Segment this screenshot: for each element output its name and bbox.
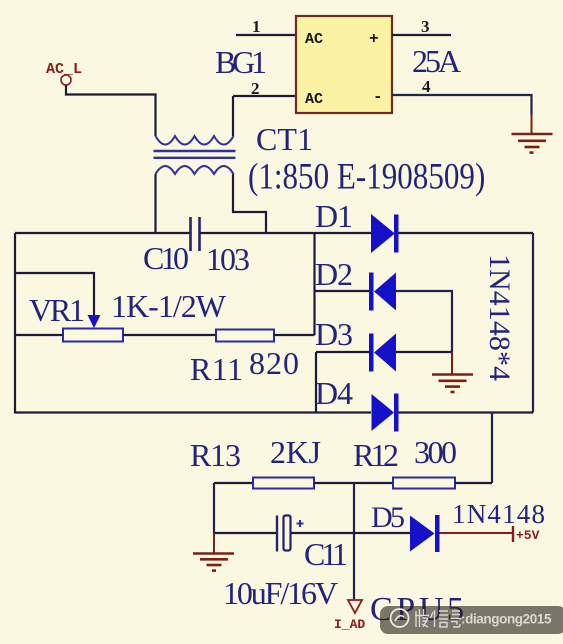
watermark bbox=[380, 606, 563, 634]
svg-text:4: 4 bbox=[422, 77, 431, 96]
potentiometer VR1 bbox=[63, 315, 123, 342]
wire bbox=[15, 273, 94, 315]
svg-text:2: 2 bbox=[251, 79, 260, 98]
converter module U BG1 bbox=[296, 16, 392, 113]
pin 1 bbox=[236, 17, 296, 36]
node I_AD bbox=[334, 600, 365, 632]
svg-text:-: - bbox=[373, 88, 383, 106]
svg-text:D3: D3 bbox=[315, 316, 353, 352]
wire bbox=[315, 352, 317, 413]
wire bbox=[14, 233, 16, 414]
wire bbox=[353, 483, 355, 599]
resistor R12 bbox=[393, 478, 455, 489]
wire bbox=[396, 291, 452, 352]
svg-text:D5: D5 bbox=[371, 501, 405, 534]
wire bbox=[214, 482, 253, 484]
power +5V bbox=[513, 526, 540, 543]
pin 2 bbox=[233, 79, 296, 98]
wire bbox=[399, 411, 534, 413]
wire bbox=[440, 532, 513, 534]
svg-text:VR1: VR1 bbox=[29, 292, 85, 328]
svg-text:R11: R11 bbox=[190, 351, 243, 387]
svg-text:(1:850 E-1908509): (1:850 E-1908509) bbox=[248, 157, 485, 197]
svg-text:I_AD: I_AD bbox=[334, 617, 365, 632]
capacitor C10 bbox=[191, 217, 200, 251]
svg-text:+: + bbox=[369, 30, 379, 48]
wire bbox=[291, 532, 354, 534]
wire bbox=[396, 351, 452, 353]
wire bbox=[314, 482, 393, 484]
pin 4 bbox=[392, 77, 532, 116]
svg-text:1N4148*4: 1N4148*4 bbox=[483, 254, 516, 381]
diode D4 bbox=[372, 394, 399, 432]
diode D1 bbox=[372, 215, 399, 253]
svg-text:D1: D1 bbox=[315, 198, 353, 234]
wire bbox=[201, 232, 372, 234]
ground (middle) bbox=[432, 352, 473, 392]
svg-text:1K-1/2W: 1K-1/2W bbox=[111, 288, 227, 324]
wire bbox=[491, 413, 493, 484]
svg-text:3: 3 bbox=[421, 17, 430, 36]
svg-text:R13: R13 bbox=[190, 437, 241, 473]
wire bbox=[354, 532, 410, 534]
wire bbox=[274, 334, 315, 336]
svg-text:+5V: +5V bbox=[516, 528, 540, 543]
wire bbox=[15, 334, 63, 336]
ground (top right) bbox=[512, 114, 553, 153]
diode D3 bbox=[369, 334, 396, 372]
resistor R11 bbox=[216, 330, 274, 342]
wire bbox=[15, 411, 371, 413]
svg-text:D4: D4 bbox=[315, 375, 353, 411]
wire bbox=[66, 85, 156, 136]
svg-text:C11: C11 bbox=[304, 536, 348, 572]
diode D2 bbox=[369, 273, 396, 311]
svg-text:2KJ: 2KJ bbox=[270, 434, 321, 470]
svg-text:300: 300 bbox=[414, 434, 457, 470]
svg-text:AC: AC bbox=[305, 91, 323, 108]
svg-text:1: 1 bbox=[252, 17, 261, 36]
svg-text:820: 820 bbox=[249, 345, 299, 381]
wire bbox=[316, 351, 369, 353]
ground (bottom left) bbox=[193, 533, 234, 571]
diode D5 bbox=[410, 515, 440, 552]
wire bbox=[15, 232, 190, 234]
wire bbox=[532, 233, 534, 413]
wire bbox=[455, 482, 492, 484]
svg-text:1N4148: 1N4148 bbox=[452, 499, 545, 529]
wire bbox=[315, 290, 370, 292]
wire bbox=[399, 232, 534, 234]
wire bbox=[123, 334, 216, 336]
transformer CT1 bbox=[154, 136, 236, 174]
wire bbox=[214, 532, 277, 534]
svg-text:AC: AC bbox=[305, 31, 323, 48]
wire bbox=[313, 233, 315, 335]
wire bbox=[233, 174, 266, 233]
svg-text:D2: D2 bbox=[315, 256, 353, 292]
wire bbox=[232, 96, 234, 136]
node AC_L bbox=[46, 61, 82, 85]
svg-text::diangong2015: :diangong2015 bbox=[461, 612, 552, 627]
svg-text:CT1: CT1 bbox=[256, 121, 313, 157]
wire bbox=[213, 483, 215, 533]
svg-text:25A: 25A bbox=[412, 43, 461, 79]
svg-text:103: 103 bbox=[206, 241, 250, 277]
svg-text:10uF/16V: 10uF/16V bbox=[223, 575, 338, 611]
svg-text:BG1: BG1 bbox=[215, 44, 267, 80]
pin 3 bbox=[392, 17, 451, 36]
svg-text:C10: C10 bbox=[143, 240, 189, 276]
wire bbox=[154, 174, 156, 233]
svg-text:R12: R12 bbox=[353, 437, 399, 473]
resistor R13 bbox=[253, 478, 314, 489]
capacitor C11 bbox=[277, 516, 304, 552]
